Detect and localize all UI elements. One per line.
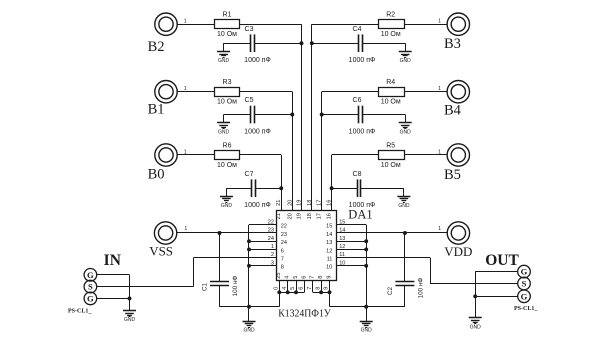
capacitor C6 1000 пФ (358, 106, 360, 124)
wire (312, 43, 359, 45)
wire (322, 114, 359, 116)
capacitor C1 100 нФ (210, 281, 229, 283)
svg-text:C7: C7 (245, 171, 254, 178)
resistor R4 10 Ом (379, 88, 405, 97)
wire pin2 (194, 257, 277, 259)
svg-text:1: 1 (438, 226, 441, 232)
svg-text:GND: GND (470, 324, 482, 330)
wire (193, 258, 195, 287)
wire (240, 154, 282, 156)
wire (255, 188, 281, 190)
port circle G (IN) (84, 292, 97, 305)
wire (226, 188, 251, 190)
wire pin24 (249, 241, 276, 243)
svg-text:9: 9 (324, 287, 330, 290)
svg-text:G: G (521, 291, 528, 301)
capacitor C3 1000 пФ (250, 34, 252, 52)
junction (247, 247, 251, 251)
wire pin10 (337, 265, 366, 267)
svg-text:13: 13 (326, 240, 332, 246)
svg-text:GND: GND (400, 129, 412, 135)
svg-text:10 Ом: 10 Ом (381, 162, 401, 169)
svg-text:R1: R1 (223, 12, 232, 19)
connector B1 (155, 81, 177, 103)
svg-text:18: 18 (307, 200, 313, 206)
wire (219, 233, 221, 281)
wire (332, 154, 379, 156)
junction (328, 290, 332, 294)
svg-text:10 Ом: 10 Ом (217, 162, 237, 169)
svg-text:6: 6 (281, 248, 284, 254)
wire (254, 43, 301, 45)
wire OUT G top (475, 271, 518, 273)
svg-text:6: 6 (301, 276, 307, 279)
wire bottom stub 2 (287, 280, 289, 292)
svg-text:GND: GND (218, 129, 230, 135)
svg-text:R5: R5 (386, 143, 395, 150)
capacitor C5 1000 пФ (250, 106, 252, 124)
svg-text:19: 19 (297, 213, 303, 219)
svg-text:0: 0 (274, 287, 280, 290)
wire (322, 91, 379, 93)
wire IN S (97, 286, 194, 288)
svg-text:4: 4 (285, 276, 291, 279)
svg-text:24: 24 (268, 236, 274, 242)
svg-text:10 Ом: 10 Ом (217, 99, 237, 106)
wire (177, 91, 214, 93)
resistor R2 10 Ом (379, 20, 405, 29)
wire IN G bottom (97, 298, 130, 300)
svg-text:R3: R3 (223, 79, 232, 86)
wire (281, 155, 283, 210)
svg-text:GND: GND (243, 328, 255, 334)
wire pin15 (337, 224, 366, 226)
resistor R1 10 Ом (215, 20, 240, 29)
wire IN G top (97, 274, 130, 276)
junction (319, 290, 323, 294)
svg-text:1000 пФ: 1000 пФ (349, 129, 376, 136)
wire (404, 233, 406, 281)
port circle S (IN) (84, 280, 97, 293)
junction (403, 231, 407, 235)
junction (218, 231, 222, 235)
svg-text:20: 20 (287, 213, 293, 219)
svg-text:GND: GND (361, 328, 373, 334)
svg-text:14: 14 (326, 232, 332, 238)
wire bottom-left group (279, 292, 304, 294)
connector B2 (155, 13, 177, 35)
wire (301, 24, 303, 210)
svg-text:VSS: VSS (149, 243, 173, 258)
svg-text:1000 пФ: 1000 пФ (244, 57, 271, 64)
svg-text:B1: B1 (148, 102, 165, 118)
svg-text:1: 1 (184, 226, 187, 232)
op-amp U1 (IC DA1 body) (277, 211, 337, 281)
svg-text:1000 пФ: 1000 пФ (349, 57, 376, 64)
svg-text:1000 пФ: 1000 пФ (244, 129, 271, 136)
wire bottom-right group (313, 292, 330, 294)
svg-text:B3: B3 (444, 36, 461, 52)
svg-text:24: 24 (281, 240, 287, 246)
wire (224, 43, 251, 45)
svg-text:21: 21 (276, 200, 282, 206)
svg-text:VDD: VDD (444, 244, 472, 259)
junction (364, 264, 368, 268)
wire bottom stub 3 (296, 280, 298, 292)
svg-text:OUT: OUT (485, 252, 519, 269)
svg-text:К1324ПФ1У: К1324ПФ1У (278, 308, 331, 320)
wire (321, 92, 323, 210)
wire (311, 24, 313, 210)
svg-text:GND: GND (218, 58, 230, 64)
junction (247, 239, 251, 243)
junction (277, 290, 281, 294)
junction (364, 239, 368, 243)
wire pin14 (VDD) (337, 232, 447, 234)
wire (404, 24, 447, 26)
port circle G (OUT) (518, 290, 531, 303)
junction (294, 290, 298, 294)
connector B4 (447, 81, 469, 103)
svg-text:1000 пФ: 1000 пФ (244, 202, 271, 209)
svg-text:GND: GND (400, 58, 412, 64)
svg-text:1: 1 (184, 19, 187, 25)
svg-text:R6: R6 (223, 143, 232, 150)
ground (475, 296, 477, 318)
wire (249, 306, 279, 308)
ground (403, 188, 405, 196)
junction (364, 247, 368, 251)
svg-text:8: 8 (318, 276, 324, 279)
svg-text:S: S (88, 282, 93, 292)
svg-text:G: G (521, 267, 528, 277)
wire pin23 (VSS) (177, 232, 276, 234)
wire pin1 (249, 249, 276, 251)
svg-text:5: 5 (293, 276, 299, 279)
resistor R6 10 Ом (215, 151, 240, 160)
svg-text:11: 11 (327, 257, 333, 263)
svg-text:G: G (87, 293, 94, 303)
junction (128, 296, 132, 300)
connector VSS (154, 222, 176, 244)
wire (219, 286, 221, 307)
ground (405, 43, 407, 51)
svg-text:23: 23 (281, 232, 287, 238)
junction (247, 305, 251, 309)
junction (320, 113, 324, 117)
svg-text:B4: B4 (444, 103, 462, 119)
svg-text:18: 18 (307, 213, 313, 219)
wire (366, 306, 405, 308)
svg-text:10 Ом: 10 Ом (381, 99, 401, 106)
svg-text:S: S (522, 279, 527, 289)
junction (290, 113, 294, 117)
svg-text:B2: B2 (148, 39, 165, 55)
wire pin3 (249, 265, 276, 267)
wire (292, 92, 294, 210)
wire (332, 188, 358, 190)
svg-text:10 Ом: 10 Ом (381, 31, 401, 38)
svg-text:IN: IN (104, 252, 121, 269)
svg-text:17: 17 (317, 200, 323, 206)
svg-text:7: 7 (281, 257, 284, 263)
capacitor C7 1000 пФ (251, 179, 253, 197)
ground (223, 115, 225, 123)
wire (329, 292, 331, 306)
port circle G (OUT) (518, 265, 531, 278)
svg-text:100 нФ: 100 нФ (417, 277, 424, 298)
svg-text:10 Ом: 10 Ом (217, 31, 237, 38)
svg-text:GND: GND (124, 317, 136, 323)
svg-text:22: 22 (281, 224, 287, 230)
wire (177, 24, 214, 26)
svg-text:20: 20 (287, 200, 293, 206)
svg-text:7: 7 (310, 276, 316, 279)
svg-text:15: 15 (326, 224, 332, 230)
svg-text:C5: C5 (245, 97, 254, 104)
wire (404, 154, 447, 156)
wire bottom stub 1 (279, 280, 281, 292)
svg-text:9: 9 (326, 276, 332, 279)
resistor R3 10 Ом (215, 88, 240, 97)
wire pin13 (337, 241, 366, 243)
wire (279, 292, 281, 306)
wire (240, 91, 293, 93)
wire (254, 114, 292, 116)
junction (286, 290, 290, 294)
junction (300, 41, 304, 45)
svg-text:PS-CL1_: PS-CL1_ (68, 308, 92, 314)
ground (248, 307, 250, 322)
ground (226, 188, 228, 196)
wire (361, 188, 404, 190)
svg-text:8: 8 (315, 287, 321, 290)
svg-text:17: 17 (317, 213, 323, 219)
wire OUT G bottom (475, 296, 518, 298)
svg-text:16: 16 (327, 200, 333, 206)
svg-text:16: 16 (327, 213, 333, 219)
svg-text:B0: B0 (148, 167, 165, 183)
svg-text:13: 13 (339, 236, 345, 242)
junction (473, 294, 477, 298)
junction (364, 305, 368, 309)
junction (310, 41, 314, 45)
wire pin22 (249, 224, 276, 226)
svg-text:1: 1 (438, 19, 441, 25)
wire (224, 114, 251, 116)
node left bus (248, 225, 250, 307)
wire (404, 286, 406, 307)
svg-text:C4: C4 (353, 26, 362, 33)
port circle G (IN) (84, 269, 97, 282)
svg-text:12: 12 (326, 248, 332, 254)
wire bottom stub 4 (304, 280, 306, 292)
svg-text:21: 21 (276, 213, 282, 219)
svg-text:G: G (87, 270, 94, 280)
svg-text:C1: C1 (202, 282, 209, 291)
svg-text:5: 5 (290, 287, 296, 290)
svg-text:10: 10 (326, 265, 332, 271)
capacitor C4 1000 пФ (358, 34, 360, 52)
capacitor C8 1000 пФ (357, 179, 359, 197)
wire bottom stub 7 (329, 280, 331, 292)
wire bottom stub 6 (321, 280, 323, 292)
wire (220, 306, 250, 308)
svg-text:GND: GND (221, 203, 233, 209)
svg-text:C2: C2 (387, 286, 394, 295)
wire OUT S (430, 283, 518, 285)
connector B3 (447, 13, 469, 35)
junction (330, 186, 334, 190)
wire pin11 (337, 257, 430, 259)
svg-text:PS-CL1_: PS-CL1_ (514, 306, 538, 312)
connector VDD (447, 222, 469, 244)
svg-text:19: 19 (297, 200, 303, 206)
svg-text:25: 25 (276, 272, 282, 278)
svg-text:GND: GND (398, 203, 410, 209)
svg-text:C8: C8 (353, 171, 362, 178)
svg-text:C6: C6 (353, 97, 362, 104)
wire (404, 91, 447, 93)
wire bottom stub 5 (312, 280, 314, 292)
svg-text:B5: B5 (444, 167, 461, 183)
wire (129, 275, 131, 299)
wire (430, 258, 432, 284)
ground (405, 115, 407, 123)
junction (279, 186, 283, 190)
svg-text:C3: C3 (245, 26, 254, 33)
ground (366, 307, 368, 322)
wire (362, 114, 405, 116)
capacitor C2 100 нФ (395, 281, 414, 283)
svg-text:100 нФ: 100 нФ (232, 275, 239, 296)
wire (177, 154, 214, 156)
wire (240, 24, 302, 26)
port circle S (OUT) (518, 277, 531, 290)
wire (362, 43, 405, 45)
svg-text:DA1: DA1 (348, 208, 372, 222)
wire (312, 24, 379, 26)
junction (247, 264, 251, 268)
node right bus (366, 225, 368, 307)
wire (330, 306, 367, 308)
resistor R5 10 Ом (379, 151, 405, 160)
svg-text:6: 6 (299, 287, 305, 290)
wire (475, 272, 477, 297)
wire (331, 155, 333, 210)
connector B5 (447, 144, 469, 166)
svg-text:8: 8 (281, 265, 284, 271)
ground (129, 298, 131, 310)
wire pin12 (337, 249, 366, 251)
svg-text:R4: R4 (386, 79, 395, 86)
connector B0 (155, 144, 177, 166)
svg-text:R2: R2 (386, 12, 395, 19)
ground (223, 43, 225, 51)
